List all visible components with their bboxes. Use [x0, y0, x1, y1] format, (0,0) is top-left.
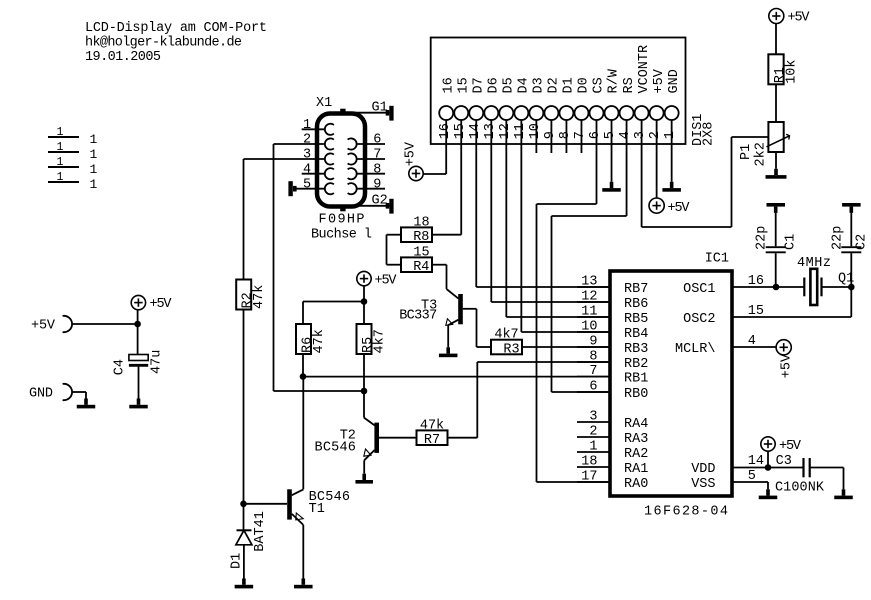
ground at DIS pin1: [670, 182, 674, 188]
wire D6 to RB6: [490, 120, 492, 302]
svg-text:VSS: VSS: [691, 477, 715, 492]
resistor R1 10k: [768, 54, 783, 84]
wire gnd to C2: [850, 213, 852, 246]
wire P1 to ground: [775, 152, 777, 169]
jumper pin J4: [48, 181, 79, 183]
wire D5 to RB5: [505, 120, 507, 317]
svg-text:D1: D1: [230, 553, 245, 569]
svg-text:47u: 47u: [150, 350, 165, 374]
svg-text:P1: P1: [739, 144, 754, 160]
svg-text:47k: 47k: [420, 418, 444, 433]
X1 pin7 stub wire: [356, 158, 385, 160]
svg-text:RB3: RB3: [624, 342, 648, 357]
DIS1 pins (circles, names, numbers): [439, 106, 453, 120]
svg-text:1: 1: [303, 118, 311, 133]
svg-text:15: 15: [453, 123, 468, 139]
svg-text:BC546: BC546: [315, 440, 356, 455]
X1 pin8 contact: [348, 168, 357, 179]
svg-text:2X8: 2X8: [702, 122, 717, 146]
stub D1 unconnected: [565, 120, 567, 153]
resistor R8 18: [401, 227, 432, 242]
svg-text:RB0: RB0: [624, 387, 648, 402]
wire +5V to rail: [363, 286, 365, 302]
ground below T1: [302, 579, 306, 585]
X1 pin5 wire: [297, 188, 326, 190]
wire T3 emitter to ground: [447, 325, 449, 347]
svg-text:OSC1: OSC1: [683, 282, 715, 297]
ground at T2 emitter: [362, 474, 366, 480]
ground below C4: [137, 399, 141, 405]
svg-text:G2: G2: [372, 194, 388, 209]
svg-text:1: 1: [90, 147, 98, 162]
+5V symbol at DIS pin2: [649, 198, 664, 213]
transistor T1 BC546: [287, 489, 292, 519]
svg-text:GND: GND: [667, 69, 682, 93]
wire node to T2 collector: [363, 391, 365, 418]
connector DIS1 box: [431, 38, 686, 145]
svg-text:8: 8: [373, 162, 381, 177]
svg-text:D4: D4: [517, 77, 532, 93]
svg-text:RB4: RB4: [624, 327, 648, 342]
svg-text:hk@holger-klabunde.de: hk@holger-klabunde.de: [85, 36, 242, 51]
svg-text:3: 3: [589, 409, 597, 424]
X1 shield G1: [352, 112, 389, 114]
svg-text:RA2: RA2: [624, 447, 648, 462]
svg-text:D0: D0: [577, 77, 592, 93]
+5V symbol near DIS pin16: [409, 166, 423, 180]
+5V symbol at MCLR: [776, 340, 791, 355]
svg-text:16F628-04: 16F628-04: [644, 505, 728, 520]
svg-text:R7: R7: [424, 433, 440, 448]
svg-text:RB5: RB5: [624, 312, 648, 327]
junction OSC1/C1: [773, 284, 780, 291]
capacitor C3 C100NK: [802, 458, 804, 477]
+5V symbol above VDD: [761, 437, 775, 451]
junction T1 base node: [240, 501, 247, 508]
capacitor C2 22p: [841, 246, 861, 248]
svg-text:+5V: +5V: [403, 141, 418, 166]
ground above C1 (inverted): [767, 203, 786, 207]
wire T2 emitter to ground: [363, 460, 365, 473]
wire node to C3: [768, 467, 803, 469]
wire R6 to RB1 node: [302, 354, 304, 377]
wire VSS to ground: [732, 481, 768, 483]
svg-text:11: 11: [581, 304, 597, 319]
svg-text:7: 7: [373, 148, 381, 163]
svg-text:CS: CS: [592, 77, 607, 93]
X1 pin4 contact: [325, 168, 334, 179]
wire VDD to node: [732, 467, 768, 469]
svg-text:7: 7: [589, 364, 597, 379]
wire rail to R5: [363, 302, 365, 325]
svg-text:19.01.2005: 19.01.2005: [85, 50, 161, 65]
svg-text:RB2: RB2: [624, 357, 648, 372]
X1 pin9 stub wire: [356, 188, 385, 190]
svg-text:1: 1: [589, 439, 597, 454]
wire MCLR to +5V: [732, 346, 776, 348]
resistor R2 47k: [236, 280, 251, 310]
svg-text:5: 5: [303, 177, 311, 192]
X1 pin6 stub wire: [356, 143, 385, 145]
ground below VSS: [766, 489, 770, 495]
svg-text:14: 14: [468, 123, 483, 139]
svg-text:VDD: VDD: [691, 462, 715, 477]
svg-text:4: 4: [303, 162, 311, 177]
svg-text:+5V: +5V: [150, 297, 173, 312]
wire C3 to ground: [810, 467, 844, 469]
svg-text:R/W: R/W: [607, 68, 622, 93]
+5V supply symbol at input: [131, 295, 145, 309]
svg-text:+5V: +5V: [788, 11, 811, 26]
X1 pin8 stub wire: [356, 173, 385, 175]
X1 pin2 wire: [274, 143, 326, 145]
X1 pin6 contact: [348, 138, 357, 149]
svg-text:BC337: BC337: [399, 309, 437, 324]
wire GND input: [72, 391, 87, 393]
ground below D1: [242, 579, 246, 585]
+5V input connector: [63, 316, 72, 332]
svg-text:47k: 47k: [252, 285, 267, 309]
svg-text:RA4: RA4: [624, 417, 648, 432]
jumper pin J2: [48, 151, 79, 153]
X1 pin5 contact: [325, 183, 334, 194]
svg-text:+5V: +5V: [375, 273, 398, 288]
svg-text:1: 1: [90, 177, 98, 192]
svg-text:9: 9: [373, 177, 381, 192]
svg-text:RA0: RA0: [624, 477, 648, 492]
svg-text:22p: 22p: [755, 226, 770, 250]
svg-text:16: 16: [438, 123, 453, 139]
svg-text:G1: G1: [372, 101, 388, 116]
svg-text:1: 1: [57, 171, 64, 184]
junction OSC2/C2: [848, 284, 855, 291]
svg-text:+5V: +5V: [779, 439, 802, 454]
wire +5V input to node: [72, 323, 138, 325]
wire CS to RA0: [596, 120, 598, 204]
ground at T3 emitter: [446, 347, 450, 353]
svg-text:47k: 47k: [312, 329, 327, 353]
jumper pin J3: [48, 166, 79, 168]
svg-text:BAT41: BAT41: [253, 511, 268, 552]
X1 pin4 stub wire: [302, 173, 326, 175]
wire RS to RB0: [626, 120, 628, 216]
wire DIS pin2 to +5V: [656, 120, 658, 198]
wire R1 to P1: [775, 84, 777, 122]
svg-text:D3: D3: [532, 77, 547, 93]
wire R/W to ground: [611, 120, 613, 182]
wire R2 to T1 base node: [243, 310, 245, 504]
svg-text:15: 15: [456, 77, 471, 93]
wire node to C4: [137, 324, 139, 355]
wire T1 emitter to ground: [302, 525, 304, 579]
svg-text:+5V: +5V: [780, 353, 795, 378]
junction RB1 node: [300, 373, 307, 380]
wire C2 to OSC2: [850, 253, 852, 287]
resistor R7 47k: [417, 430, 448, 445]
wire DIS1 pin15 to R8: [460, 120, 462, 235]
wire R4 to T3 collector: [433, 264, 447, 266]
svg-text:RB7: RB7: [624, 282, 648, 297]
wire C4 to ground: [138, 365, 140, 398]
stub D0 unconnected: [580, 120, 582, 153]
svg-text:X1: X1: [316, 96, 332, 111]
ground at X1 pin5 (rotated): [293, 186, 297, 192]
svg-text:1: 1: [90, 132, 98, 147]
wire T3 base to R3: [476, 309, 478, 347]
wire node to +5V: [767, 451, 769, 467]
X1 pin1 stub wire: [302, 128, 326, 130]
svg-text:4k7: 4k7: [494, 328, 518, 343]
resistor R5 4k7: [357, 324, 372, 354]
transistor T3 BC337: [458, 294, 463, 324]
svg-text:+5V: +5V: [31, 319, 56, 334]
svg-text:D7: D7: [471, 77, 486, 93]
wire DIS pin1 to ground: [671, 120, 673, 182]
ground above C2 (inverted): [842, 203, 861, 207]
svg-text:RB1: RB1: [624, 372, 648, 387]
svg-text:10: 10: [581, 319, 597, 334]
wire bracket R8-R4: [387, 234, 402, 236]
wire D4 to RB4: [520, 120, 522, 332]
X1 pin3 wire: [244, 158, 326, 160]
svg-text:F09HP: F09HP: [319, 213, 365, 228]
svg-text:3: 3: [303, 148, 311, 163]
wire VCONTR to P1 wiper: [641, 120, 643, 227]
wire node to +5V symbol: [137, 310, 139, 324]
wire +5V to R1: [775, 24, 777, 55]
svg-text:R4: R4: [413, 260, 429, 275]
capacitor C1 22p: [766, 246, 786, 248]
svg-text:12: 12: [581, 289, 597, 304]
wire D7 to RB7: [475, 120, 477, 287]
svg-text:4k7: 4k7: [373, 329, 388, 353]
connector X1 DB9 body: [317, 114, 365, 207]
GND input connector: [63, 384, 72, 400]
svg-text:4MHz: 4MHz: [797, 256, 831, 271]
resistor R6 47k: [296, 324, 311, 354]
svg-text:C1: C1: [784, 234, 799, 250]
capacitor C4 47u: [129, 355, 148, 361]
svg-text:D5: D5: [502, 77, 517, 93]
svg-text:9: 9: [589, 334, 597, 349]
svg-text:R8: R8: [413, 230, 429, 245]
svg-text:14: 14: [748, 454, 764, 469]
svg-text:MCLR\: MCLR\: [675, 342, 716, 357]
wire OSC1 to crystal: [732, 286, 804, 288]
X1 pin1 contact: [325, 124, 334, 135]
svg-text:13: 13: [581, 274, 597, 289]
svg-text:GND: GND: [29, 387, 53, 402]
junction T2 collector node: [361, 388, 368, 395]
svg-text:1: 1: [57, 141, 64, 154]
svg-text:17: 17: [581, 469, 597, 484]
stub D3 unconnected: [535, 120, 537, 153]
X1 pin7 contact: [348, 153, 357, 164]
transistor T2 BC546: [374, 423, 379, 453]
wire T1 collector: [302, 377, 304, 490]
diode D1 BAT41: [237, 529, 252, 531]
svg-text:D2: D2: [547, 77, 562, 93]
svg-text:1: 1: [57, 126, 64, 139]
svg-text:D1: D1: [562, 77, 577, 93]
svg-text:2k2: 2k2: [754, 142, 769, 166]
svg-text:1: 1: [90, 162, 98, 177]
X1 pin9 contact: [348, 183, 357, 194]
svg-text:2: 2: [303, 133, 311, 148]
svg-text:LCD-Display am COM-Port: LCD-Display am COM-Port: [85, 21, 267, 36]
crystal Q1 4MHz: [803, 278, 805, 297]
svg-text:IC1: IC1: [705, 252, 729, 267]
junction +5V rail: [361, 298, 368, 305]
wire rail to R6: [303, 301, 364, 303]
svg-text:+5V: +5V: [668, 201, 691, 216]
svg-text:18: 18: [413, 215, 429, 230]
IC1 box: [610, 271, 732, 496]
svg-text:VCONTR: VCONTR: [637, 45, 652, 94]
svg-text:C4: C4: [113, 359, 128, 375]
X1 pin3 contact: [325, 153, 334, 164]
potentiometer P1 2k2: [768, 122, 783, 152]
svg-text:18: 18: [581, 454, 597, 469]
junction +5V input node: [134, 321, 141, 328]
svg-text:C2: C2: [855, 234, 870, 250]
svg-text:R3: R3: [503, 342, 519, 357]
svg-text:OSC2: OSC2: [683, 312, 715, 327]
wire D1 to ground: [243, 545, 245, 579]
svg-text:1: 1: [57, 156, 64, 169]
jumper pin J1: [48, 136, 79, 138]
wire R5 to T2 node: [363, 354, 365, 392]
wire node to T1 base: [244, 503, 288, 505]
wire node to D1: [243, 504, 245, 531]
wire R7 to RB2: [448, 437, 478, 439]
X1 pin2 contact: [325, 138, 334, 149]
junction VDD node: [765, 464, 772, 471]
svg-text:+5V: +5V: [652, 68, 667, 93]
ground right of C3: [842, 489, 846, 495]
ground at GND input: [84, 399, 88, 405]
svg-text:22p: 22p: [830, 226, 845, 250]
+5V symbol above R1: [769, 9, 784, 24]
svg-text:8: 8: [589, 349, 597, 364]
+5V symbol above R5: [357, 271, 371, 285]
wire R3 to RB3: [522, 346, 610, 348]
svg-text:RB6: RB6: [624, 297, 648, 312]
ground at R/W: [610, 182, 614, 188]
ground below P1: [774, 169, 778, 175]
wire X1 pin2 to T2 node: [273, 144, 275, 391]
svg-text:2: 2: [589, 424, 597, 439]
svg-text:15: 15: [413, 245, 429, 260]
wire DIS1 pin16 to +5V: [445, 120, 447, 174]
wire gnd to C1: [775, 213, 777, 246]
svg-text:C100NK: C100NK: [775, 480, 825, 495]
wire C1 to OSC1: [775, 253, 777, 287]
IC1 left pins: [577, 286, 610, 288]
svg-text:RA3: RA3: [624, 432, 648, 447]
svg-text:RS: RS: [622, 77, 637, 93]
svg-text:10k: 10k: [785, 59, 800, 83]
svg-text:6: 6: [373, 133, 381, 148]
svg-text:D6: D6: [486, 77, 501, 93]
wire OSC2 to crystal: [732, 316, 851, 318]
X1 shield G2: [352, 205, 389, 207]
svg-text:16: 16: [441, 77, 456, 93]
resistor R3 4k7: [491, 340, 522, 355]
resistor R4 15: [401, 257, 432, 272]
wire RB1 node to IC: [303, 376, 610, 378]
svg-text:C3: C3: [776, 454, 792, 469]
svg-text:Buchse l: Buchse l: [311, 228, 372, 243]
stub D2 unconnected: [550, 120, 552, 153]
wire X1 pin3 down to R2: [243, 159, 245, 280]
svg-text:RA1: RA1: [624, 462, 648, 477]
svg-text:T1: T1: [309, 502, 325, 517]
svg-text:6: 6: [589, 379, 597, 394]
